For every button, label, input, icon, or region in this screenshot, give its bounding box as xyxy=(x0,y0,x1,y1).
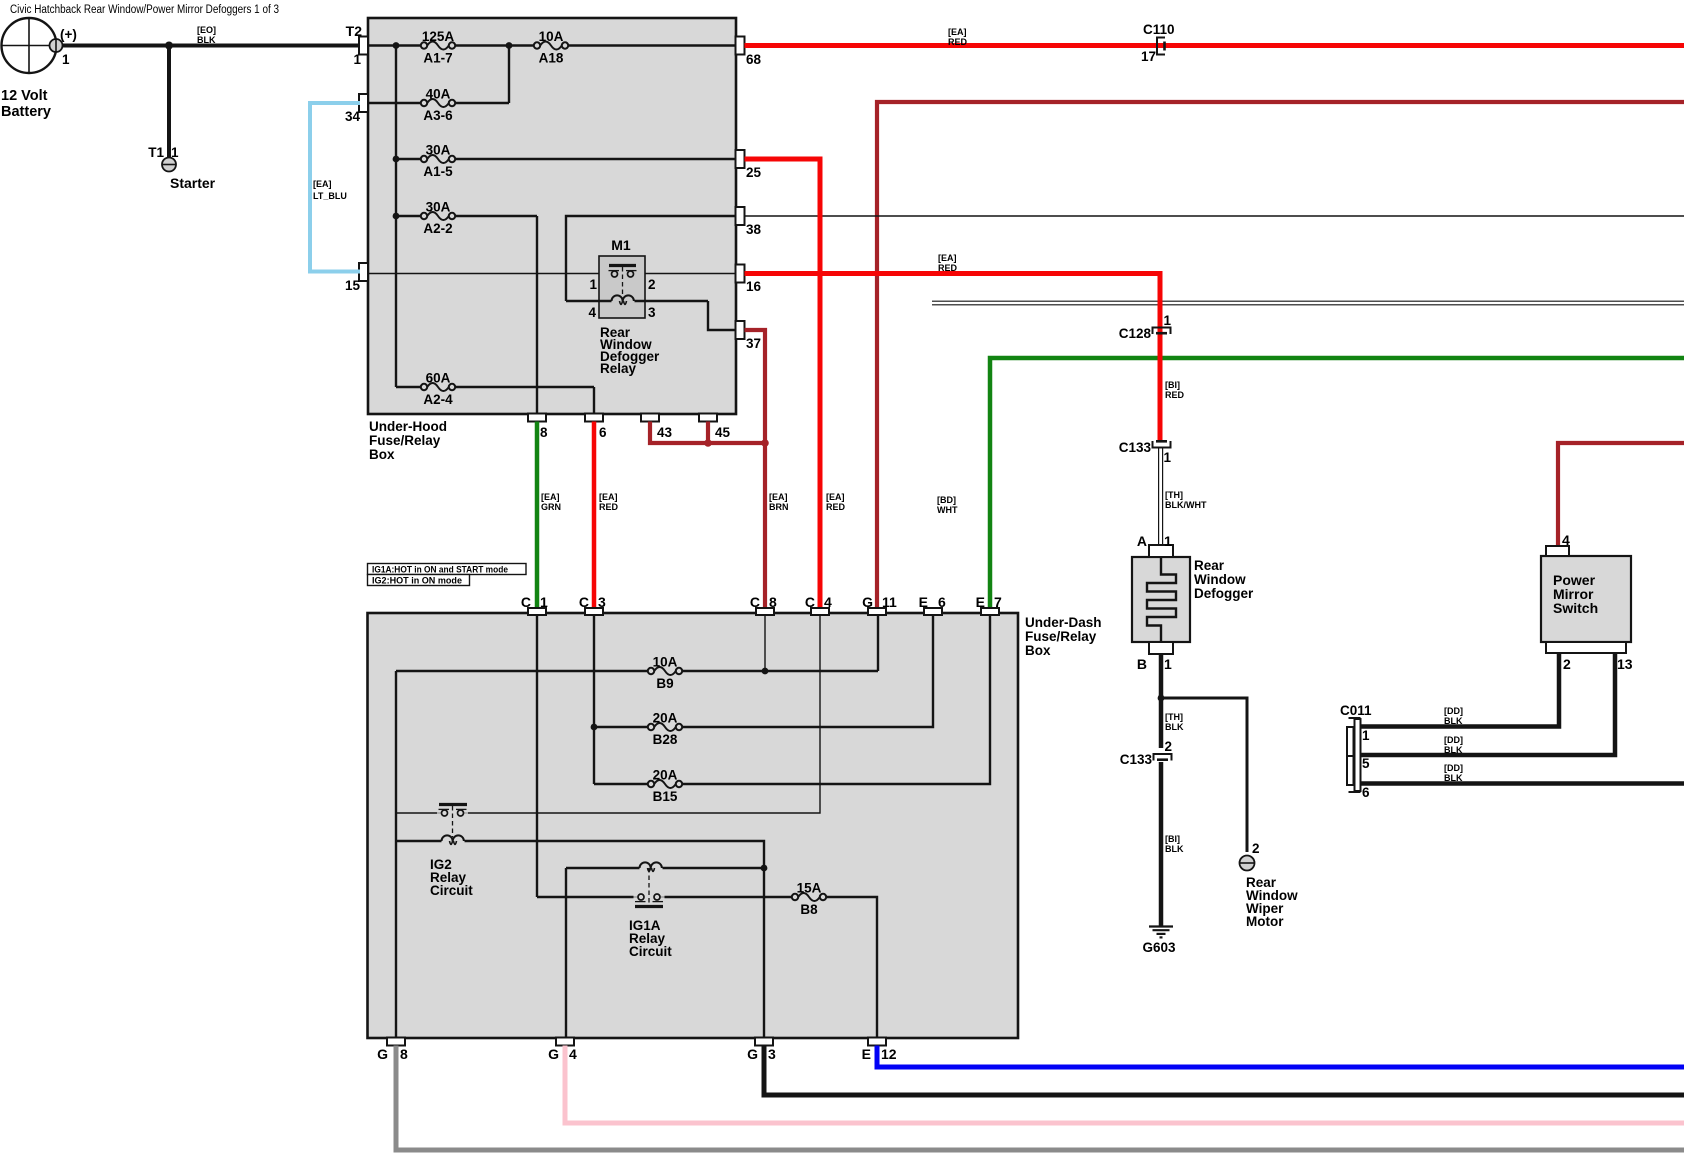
Power Mirror Switch name xyxy=(1553,572,1598,616)
svg-text:GRN: GRN xyxy=(541,502,561,512)
junction dot 45/join xyxy=(704,439,712,447)
ground G603 xyxy=(1149,927,1173,938)
junction dot bus/30A A1-5 row xyxy=(393,156,400,163)
svg-text:[EA]: [EA] xyxy=(769,492,788,502)
svg-text:Circuit: Circuit xyxy=(430,883,473,898)
svg-text:1: 1 xyxy=(353,52,361,67)
svg-text:Battery: Battery xyxy=(1,104,51,120)
svg-text:Window: Window xyxy=(1194,572,1246,587)
svg-text:15A: 15A xyxy=(797,881,822,896)
wire label [BI] RED xyxy=(1165,380,1185,400)
svg-text:[EA]: [EA] xyxy=(938,253,957,263)
pin E7 labels xyxy=(976,594,1002,610)
M1 armature dashed link xyxy=(622,267,624,297)
svg-text:10A: 10A xyxy=(539,29,564,44)
wire label [TH] BLK/WHT xyxy=(1165,490,1207,510)
wire pin 38 to right edge thin black xyxy=(745,215,1684,217)
IG2 coil row wire xyxy=(396,841,764,1038)
pin C8 labels xyxy=(750,594,777,610)
M1 contact bar xyxy=(609,264,636,267)
starter labels T1 1 xyxy=(148,145,215,191)
PMS pin 4 tab xyxy=(1546,546,1569,556)
wire label [EA] RED (pin 16) xyxy=(938,253,958,273)
fuse 125A A1-7 xyxy=(421,42,455,50)
svg-text:40A: 40A xyxy=(426,87,451,102)
svg-text:[BD]: [BD] xyxy=(937,495,956,505)
defogger pin B labels xyxy=(1137,656,1172,672)
fuse 125A labels xyxy=(422,29,455,66)
fuse 40A labels xyxy=(423,87,453,124)
wire C011 pin 6 to right edge [DD] BLK xyxy=(1360,781,1684,786)
svg-text:B28: B28 xyxy=(653,732,678,747)
defogger pin A labels xyxy=(1137,533,1172,549)
svg-text:[BI]: [BI] xyxy=(1165,834,1180,844)
svg-text:B8: B8 xyxy=(800,902,818,917)
wire label [TH] BLK xyxy=(1165,712,1184,732)
svg-text:E: E xyxy=(919,594,928,610)
svg-text:Relay: Relay xyxy=(600,361,637,376)
svg-text:10A: 10A xyxy=(653,655,678,670)
svg-text:43: 43 xyxy=(657,425,673,440)
wire PMS pin 13 to C011 pin 5 [DD] BLK xyxy=(1360,653,1615,755)
svg-text:8: 8 xyxy=(540,425,548,440)
svg-text:20A: 20A xyxy=(653,711,678,726)
svg-text:1: 1 xyxy=(1164,533,1172,549)
junction dot bus/125A row xyxy=(393,42,400,49)
M1 coil xyxy=(612,295,634,304)
svg-text:BLK: BLK xyxy=(197,35,216,45)
svg-text:E: E xyxy=(976,594,985,610)
svg-text:C133: C133 xyxy=(1120,752,1153,767)
wire G11 drop to B9 row xyxy=(877,614,879,671)
svg-text:[BI]: [BI] xyxy=(1165,380,1180,390)
svg-text:Fuse/Relay: Fuse/Relay xyxy=(369,433,441,448)
battery B1: 12 Volt Battery xyxy=(2,18,57,73)
svg-text:(+): (+) xyxy=(60,27,77,42)
fuse 20A B28 xyxy=(648,723,682,731)
svg-text:34: 34 xyxy=(345,109,361,124)
pin C8 tab (top) xyxy=(756,608,774,615)
svg-text:IG1A:HOT in ON and START mode: IG1A:HOT in ON and START mode xyxy=(372,565,508,575)
svg-text:12 Volt: 12 Volt xyxy=(1,88,48,104)
IG2 relay contact bar xyxy=(439,803,467,806)
pin E12 labels xyxy=(862,1046,897,1062)
pin E6 tab (top) xyxy=(924,608,942,615)
fuse 30A A2-2 labels xyxy=(423,200,452,237)
svg-text:60A: 60A xyxy=(426,371,451,386)
svg-text:Civic Hatchback Rear Window/Po: Civic Hatchback Rear Window/Power Mirror… xyxy=(10,4,279,16)
fuse 10A B9 labels xyxy=(653,655,678,692)
pin 38 tab (right) xyxy=(736,207,745,225)
junction dot IG2 drop/IG1A coil row xyxy=(761,865,768,872)
pin C1 labels xyxy=(521,594,548,610)
junction dot C3/B28 xyxy=(591,724,598,731)
Under-Hood Fuse/Relay Box body xyxy=(368,18,736,414)
under-hood internal bus vertical xyxy=(395,46,397,388)
svg-text:17: 17 xyxy=(1141,49,1156,64)
pin C3 tab (top) xyxy=(585,608,603,615)
svg-text:1: 1 xyxy=(589,277,597,292)
wire power mirror switch pin 4 to right edge [EA] BRN xyxy=(1558,443,1684,546)
svg-text:4: 4 xyxy=(824,594,832,610)
svg-text:68: 68 xyxy=(746,52,762,67)
svg-text:[DD]: [DD] xyxy=(1444,706,1463,716)
svg-text:B9: B9 xyxy=(656,676,673,691)
wire pin 68 to right edge [EA] RED xyxy=(745,43,1684,48)
wire under-hood pin 6 down to C3 [EA] RED xyxy=(592,422,597,609)
svg-text:2: 2 xyxy=(1252,841,1260,856)
IG1A coil xyxy=(640,862,662,871)
wire label [EA] BRN xyxy=(769,492,789,512)
svg-text:A1-7: A1-7 xyxy=(423,51,452,66)
svg-text:BLK: BLK xyxy=(1444,716,1463,726)
connector C128 pin 1 xyxy=(1153,328,1171,335)
svg-text:Motor: Motor xyxy=(1246,914,1284,929)
wire 30A A1-5 row to pin 25 xyxy=(396,158,736,160)
wire down to starter xyxy=(167,46,171,159)
pin 34 tab (left) xyxy=(359,94,368,112)
svg-text:BLK: BLK xyxy=(1165,844,1184,854)
under-dash left bus vertical to G8 xyxy=(395,671,397,1038)
pin G3 labels xyxy=(747,1046,776,1062)
wire label [EA] RED (C4) xyxy=(826,492,846,512)
svg-text:16: 16 xyxy=(746,279,762,294)
PMS bottom tab xyxy=(1546,642,1626,653)
svg-text:C: C xyxy=(521,594,531,610)
svg-text:B: B xyxy=(1137,656,1147,672)
wiper motor terminal 2 xyxy=(1239,856,1255,871)
pin C4 tab (top) xyxy=(811,608,829,615)
defogger pin B tab xyxy=(1149,642,1173,654)
wire label [EA] RED (top) xyxy=(948,27,968,47)
IG1A coil row wire xyxy=(566,868,764,1038)
wire under-hood pin 8 down to C1 [EA] GRN xyxy=(535,422,540,609)
Rear Window Defogger name label xyxy=(1194,558,1254,601)
svg-text:A1-5: A1-5 xyxy=(423,164,453,179)
svg-text:6: 6 xyxy=(599,425,607,440)
IG1A armature dashed link xyxy=(648,868,650,904)
wire label [EA] GRN xyxy=(541,492,561,512)
svg-text:Fuse/Relay: Fuse/Relay xyxy=(1025,629,1097,644)
fuse 30A A2-2 xyxy=(421,212,455,220)
wire B15 row to E7 xyxy=(594,616,990,784)
svg-text:125A: 125A xyxy=(422,29,455,44)
svg-text:38: 38 xyxy=(746,222,762,237)
wire 40A row xyxy=(368,46,509,104)
svg-text:BLK/WHT: BLK/WHT xyxy=(1165,500,1207,510)
svg-text:RED: RED xyxy=(599,502,619,512)
svg-text:[TH]: [TH] xyxy=(1165,712,1183,722)
Rear Window Defogger Relay label xyxy=(600,325,660,376)
svg-text:G: G xyxy=(747,1046,758,1062)
svg-text:Under-Hood: Under-Hood xyxy=(369,419,447,434)
svg-text:8: 8 xyxy=(400,1046,408,1062)
svg-text:M1: M1 xyxy=(611,237,631,253)
IG1A contact row wire and 15A B8 to E12 xyxy=(537,897,877,1038)
battery name label xyxy=(1,88,51,120)
svg-text:G: G xyxy=(548,1046,559,1062)
wire pin 38 to M1 coil feed xyxy=(566,216,736,301)
svg-text:4: 4 xyxy=(1562,532,1570,548)
M1 coil row wire pin4 to pin3 and out to pin 37 xyxy=(566,301,736,330)
svg-text:Circuit: Circuit xyxy=(629,944,672,959)
wire label [EO] BLK xyxy=(197,25,216,45)
fuse 10A B9 xyxy=(648,667,682,675)
svg-text:A: A xyxy=(1137,533,1147,549)
IG1A contact ticks xyxy=(635,901,663,903)
junction dot bus/30A A2-2 row xyxy=(393,213,400,220)
wire pin 25 down to C4 [EA] RED xyxy=(745,159,821,608)
wire pin 16 to C128 [EA] RED xyxy=(745,274,1161,441)
wire C3 vertical xyxy=(593,616,595,784)
svg-text:C133: C133 xyxy=(1119,440,1152,455)
wire G3 to right edge BLK xyxy=(764,1046,1684,1096)
svg-text:[DD]: [DD] xyxy=(1444,763,1463,773)
wire B28 row to E6 xyxy=(594,616,933,727)
Under-Dash Fuse/Relay Box body xyxy=(368,613,1019,1038)
svg-text:[EA]: [EA] xyxy=(599,492,618,502)
pin E12 tab (bottom) xyxy=(868,1038,886,1046)
svg-text:12: 12 xyxy=(881,1046,897,1062)
wire E7 up and right to edge GRN xyxy=(990,358,1684,608)
Under-Dash box label xyxy=(1025,615,1102,658)
pin T2-1 tab (left) xyxy=(359,37,368,55)
wire C1 vertical to IG1A contact row xyxy=(536,616,538,897)
Under-Hood box label xyxy=(369,419,447,462)
wire labels [DD] BLK x3 xyxy=(1444,706,1463,783)
svg-text:BLK: BLK xyxy=(1444,773,1463,783)
svg-text:5: 5 xyxy=(1362,756,1370,771)
svg-text:BLK: BLK xyxy=(1165,722,1184,732)
svg-text:BRN: BRN xyxy=(769,502,789,512)
defogger grid element xyxy=(1147,557,1176,642)
svg-text:1: 1 xyxy=(540,594,548,610)
svg-text:RED: RED xyxy=(948,37,968,47)
junction dot 125A/40A feed xyxy=(506,42,513,49)
svg-text:Under-Dash: Under-Dash xyxy=(1025,615,1102,630)
svg-text:C011: C011 xyxy=(1340,703,1372,718)
wire C4 vertical and IG2 contact row xyxy=(468,616,820,813)
svg-text:30A: 30A xyxy=(426,143,451,158)
svg-text:1: 1 xyxy=(1362,728,1370,743)
connector C110 pin 17 xyxy=(1157,38,1165,55)
svg-text:[DD]: [DD] xyxy=(1444,735,1463,745)
wire C133 to defogger A [TH] BLK/WHT (white wire outline) xyxy=(1159,448,1163,545)
svg-text:T2: T2 xyxy=(346,23,363,39)
svg-text:BLK: BLK xyxy=(1444,745,1463,755)
relay M1 body xyxy=(599,256,645,318)
svg-text:25: 25 xyxy=(746,165,762,180)
pin G8 tab (bottom) xyxy=(387,1038,405,1046)
svg-text:A18: A18 xyxy=(539,51,564,66)
svg-text:RED: RED xyxy=(938,263,958,273)
pin 6 tab (bottom) xyxy=(585,414,603,422)
IG2 contact terminals xyxy=(442,810,464,816)
junction dot B wire / wiper branch xyxy=(1158,695,1165,702)
pin E7 tab (top) xyxy=(981,608,999,615)
svg-text:G603: G603 xyxy=(1142,940,1176,955)
svg-text:WHT: WHT xyxy=(937,505,958,515)
svg-text:15: 15 xyxy=(345,278,361,293)
fuse 20A B28 labels xyxy=(653,711,678,748)
pin 43 tab (bottom) xyxy=(641,414,659,422)
wire label [BI] BLK xyxy=(1165,834,1184,854)
svg-text:C: C xyxy=(579,594,589,610)
wire G8 to right edge GRY xyxy=(396,1046,1684,1151)
pin 8 tab (bottom) xyxy=(528,414,546,422)
svg-text:Rear: Rear xyxy=(1194,558,1225,573)
wire pin34 to pin15 loop [EA] LT_BLU xyxy=(310,103,360,272)
fuse 10A labels xyxy=(539,29,564,66)
wire pins 43/45 join [EA] BRN xyxy=(650,422,765,444)
wire maroon branch to right edge (to G11) [EA] BRN xyxy=(877,102,1684,608)
svg-text:2: 2 xyxy=(648,277,656,292)
svg-text:Starter: Starter xyxy=(170,175,216,191)
svg-text:2: 2 xyxy=(1165,739,1173,754)
svg-text:3: 3 xyxy=(768,1046,776,1062)
wire B9 row xyxy=(396,670,878,672)
svg-text:[TH]: [TH] xyxy=(1165,490,1183,500)
fuse 40A A3-6 xyxy=(421,99,455,107)
svg-text:Defogger: Defogger xyxy=(1194,586,1254,601)
fuse 20A B15 labels xyxy=(653,768,678,805)
IG2 Relay Circuit label xyxy=(430,857,473,898)
svg-text:RED: RED xyxy=(1165,390,1185,400)
svg-text:45: 45 xyxy=(715,425,731,440)
defogger pin A tab xyxy=(1149,545,1173,557)
svg-text:1: 1 xyxy=(171,145,179,160)
svg-text:8: 8 xyxy=(769,594,777,610)
svg-text:RED: RED xyxy=(826,502,846,512)
svg-text:Switch: Switch xyxy=(1553,600,1598,616)
IG2 armature dashed link xyxy=(452,806,454,837)
IG1A contact terminals xyxy=(638,894,660,900)
svg-text:[EA]: [EA] xyxy=(826,492,845,502)
svg-text:T1: T1 xyxy=(148,145,164,160)
svg-text:11: 11 xyxy=(882,594,897,610)
svg-text:C: C xyxy=(750,594,760,610)
junction at battery/starter split xyxy=(165,42,173,50)
svg-text:Box: Box xyxy=(1025,643,1051,658)
svg-text:G: G xyxy=(862,594,873,610)
svg-text:C: C xyxy=(805,594,815,610)
wire pin 15 to pin 16 thin row through relay contact xyxy=(368,273,736,275)
svg-text:[EA]: [EA] xyxy=(541,492,560,502)
wire C8 stub thin xyxy=(764,616,766,671)
svg-text:6: 6 xyxy=(1362,785,1370,800)
IG2 coil xyxy=(442,835,464,844)
svg-text:3: 3 xyxy=(598,594,606,610)
svg-text:30A: 30A xyxy=(426,200,451,215)
pin 16 tab (right) xyxy=(736,265,745,283)
wire branch to rear window wiper motor xyxy=(1161,698,1247,852)
pin C3 labels xyxy=(579,594,606,610)
svg-text:C110: C110 xyxy=(1143,22,1175,37)
wire battery to T2 pin 1 [EO] BLK xyxy=(63,44,361,48)
connector C011 xyxy=(1347,718,1361,792)
pin 15 tab (left) xyxy=(359,263,368,281)
svg-text:A3-6: A3-6 xyxy=(423,108,453,123)
junction dot B9/C8 xyxy=(762,668,769,675)
wire [BD] WHT to right edge (white wire outline) xyxy=(932,301,1684,305)
wire C133-2 to ground [BI] BLK xyxy=(1159,762,1164,926)
pin G8 labels xyxy=(377,1046,408,1062)
fuse 60A A2-4 xyxy=(421,383,455,391)
svg-text:LT_BLU: LT_BLU xyxy=(313,191,347,201)
svg-text:4: 4 xyxy=(569,1046,577,1062)
pin G11 tab (top) xyxy=(868,608,886,615)
svg-text:1: 1 xyxy=(1164,450,1172,465)
svg-text:1: 1 xyxy=(1164,313,1172,328)
svg-text:C128: C128 xyxy=(1119,326,1152,341)
wire label [EA] LT_BLU xyxy=(313,179,347,201)
svg-text:E: E xyxy=(862,1046,871,1062)
svg-text:A2-4: A2-4 xyxy=(423,392,453,407)
svg-text:[EA]: [EA] xyxy=(313,179,332,189)
svg-text:6: 6 xyxy=(938,594,946,610)
IG1A Relay Circuit label xyxy=(629,918,672,959)
svg-text:7: 7 xyxy=(994,594,1002,610)
svg-text:4: 4 xyxy=(588,305,596,320)
wire 30A A2-2 row to pin 8 drop xyxy=(396,216,537,414)
note box IG2:HOT xyxy=(368,575,470,586)
fuse 30A A1-5 xyxy=(421,155,455,163)
note box IG1A:HOT xyxy=(368,564,527,575)
wire PMS pin 2 to C011 pin 1 [DD] BLK xyxy=(1360,653,1559,727)
svg-text:[EA]: [EA] xyxy=(948,27,967,37)
svg-text:2: 2 xyxy=(1563,656,1571,672)
svg-text:Box: Box xyxy=(369,447,395,462)
Rear Window Defogger body xyxy=(1132,557,1190,642)
pin C1 tab (top) xyxy=(528,608,546,615)
svg-text:13: 13 xyxy=(1617,656,1633,672)
IG1A contact bar xyxy=(635,905,663,908)
Power Mirror Switch body xyxy=(1541,556,1631,642)
svg-text:IG2:HOT in ON mode: IG2:HOT in ON mode xyxy=(372,576,462,586)
connector C133 pin 1 xyxy=(1153,441,1171,448)
M1 contact ticks xyxy=(609,270,637,272)
M1 contact terminals pins 1-2 xyxy=(612,271,634,277)
pin G11 labels xyxy=(862,594,897,610)
junction dot 37-wire/join xyxy=(761,439,769,447)
pin G4 tab (bottom) xyxy=(556,1038,574,1046)
pin G4 labels xyxy=(548,1046,577,1062)
IG2 contact ticks xyxy=(439,808,467,810)
fuse 10A A18 xyxy=(534,42,568,50)
C011 pin labels 1 5 6 xyxy=(1362,728,1370,800)
pin G3 tab (bottom) xyxy=(755,1038,773,1046)
wire E12 to right edge BLU xyxy=(877,1046,1684,1068)
fuse 15A B8 xyxy=(792,893,826,901)
svg-text:1: 1 xyxy=(62,52,70,67)
svg-text:A2-2: A2-2 xyxy=(423,221,452,236)
svg-text:[EO]: [EO] xyxy=(197,25,216,35)
connector C133 pin 2 xyxy=(1154,754,1172,761)
svg-text:B15: B15 xyxy=(653,789,678,804)
pin E6 labels xyxy=(919,594,946,610)
fuse 15A B8 labels xyxy=(797,881,822,918)
wire label [BD] WHT (E6) xyxy=(937,495,958,515)
wire 125A row segments xyxy=(368,44,736,46)
pin 25 tab (right) xyxy=(736,150,745,168)
pin 68 tab (right) xyxy=(736,37,745,55)
svg-text:G: G xyxy=(377,1046,388,1062)
pin C4 labels xyxy=(805,594,832,610)
wire defogger B down [TH] BLK xyxy=(1159,654,1164,748)
starter terminal T1-1 xyxy=(162,158,177,172)
wire G4 to right edge PNK xyxy=(565,1046,1684,1124)
svg-text:3: 3 xyxy=(648,305,656,320)
